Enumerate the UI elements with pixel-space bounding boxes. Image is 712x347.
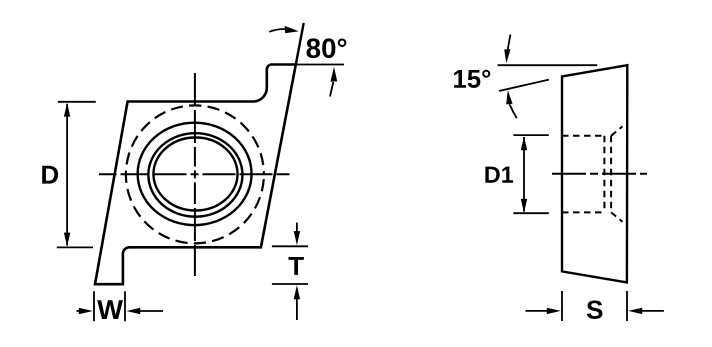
hole countersink ellipse (middle) (148, 133, 242, 217)
hidden bore: right vertical (610, 136, 612, 213)
side-view outline (562, 65, 627, 282)
label T (289, 257, 304, 275)
label D (42, 166, 58, 184)
dimension W: left arrow (77, 310, 86, 312)
dimension T: top arrow (pointing down) (296, 223, 298, 235)
slant edge extension line (80 deg construction) (296, 23, 304, 65)
15 deg top arrow (pointing down) (508, 35, 511, 50)
dimension D1: dimension line with arrows (523, 137, 525, 212)
inscribed dashed circle (126, 105, 264, 243)
dimension T: extension ticks (272, 246, 308, 284)
hidden countersink cone: top slant (611, 126, 622, 136)
vertical centerline (front view) (194, 73, 196, 276)
hole bore ellipse (inner) (153, 138, 237, 211)
dimension W: extension ticks (94, 291, 125, 321)
horizontal centerline (front view) (99, 173, 290, 175)
side view centerline (552, 173, 647, 175)
label D1 (485, 167, 513, 183)
hidden hole: top line (562, 135, 604, 137)
label W (97, 300, 123, 319)
hole counterbore ellipse (outer) (138, 123, 252, 226)
15 deg bottom arrow (pointing up) (510, 104, 517, 118)
dimension D: dimension line with arrows (66, 104, 68, 246)
hidden countersink cone: bottom slant (611, 212, 622, 221)
80 deg arc arrow (right, pointing up at ref line) (330, 82, 333, 97)
15 deg horizontal reference line (498, 64, 598, 66)
dimension W: right arrow (135, 310, 163, 312)
dimension S: right arrow (640, 310, 664, 312)
hidden bore: left vertical (603, 136, 605, 213)
label 80deg (307, 38, 347, 58)
insert front-view outline (95, 65, 296, 285)
dimension T: bottom arrow (pointing up) (296, 297, 298, 321)
label 15deg (454, 70, 490, 88)
dimension S: extension ticks (562, 291, 627, 321)
80 deg arc arrow (top, pointing right at slant) (269, 29, 285, 32)
horizontal reference line for 80 deg (296, 64, 344, 66)
dimension S: left arrow (526, 310, 551, 312)
dimension D: extension ticks (57, 102, 96, 248)
15 deg slant line (499, 80, 549, 91)
label S (587, 301, 603, 319)
hidden hole: bottom line (562, 211, 605, 213)
dimension D1: extension ticks (513, 135, 548, 213)
